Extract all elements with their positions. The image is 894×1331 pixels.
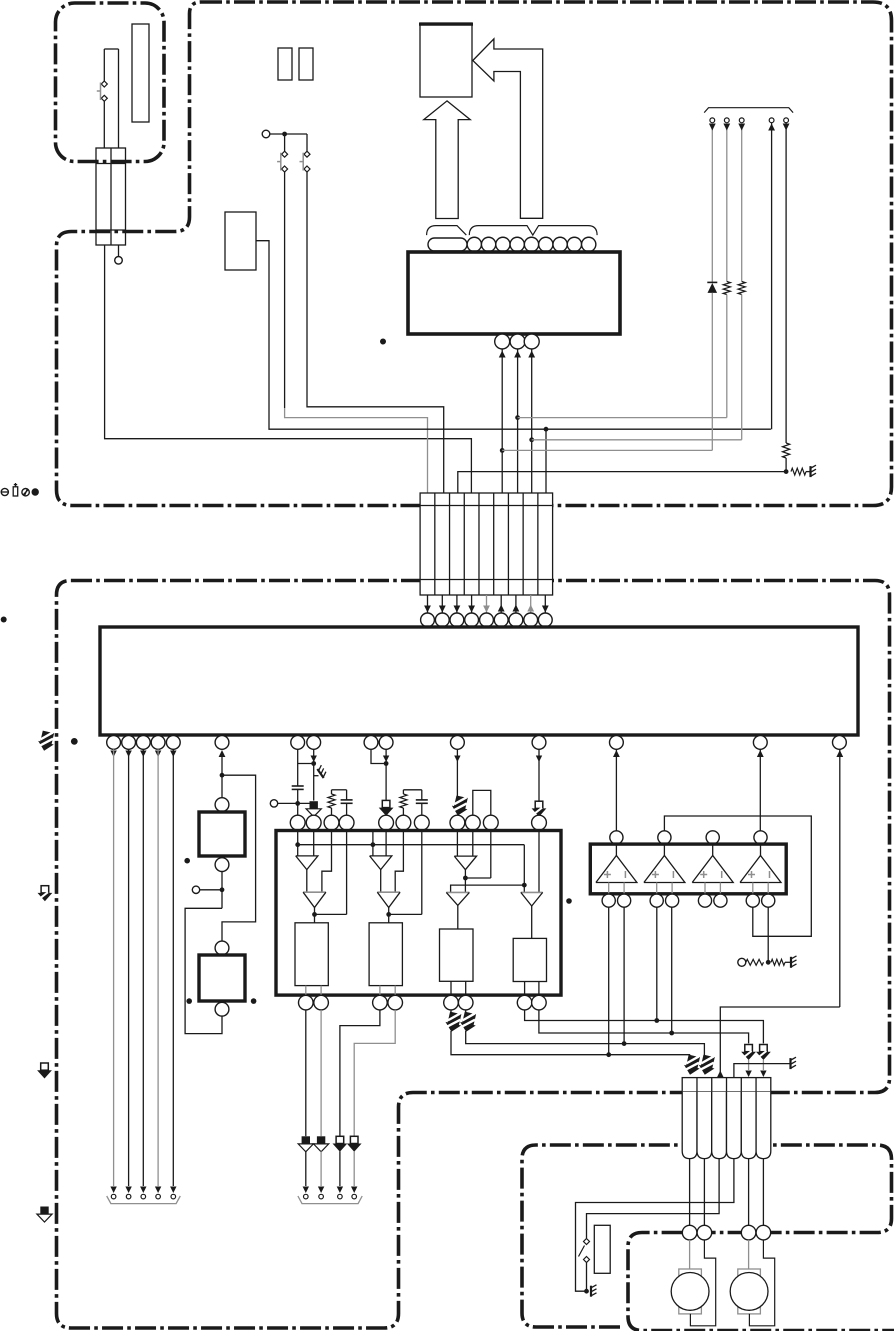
tape-head assembly tall rectangle bbox=[132, 24, 149, 122]
bullet mark left of U2 pins bbox=[71, 738, 78, 745]
brace over IC pin group, small bbox=[427, 226, 467, 236]
capacitor C1 bbox=[292, 785, 304, 787]
ground bbox=[811, 465, 817, 477]
wire: ch2 U2 pin 2 with down arrow bbox=[383, 756, 389, 763]
leaf switch S2 bbox=[284, 134, 286, 151]
switch actuator rectangle bbox=[594, 1225, 610, 1273]
bullet marks flanking K2 bbox=[186, 998, 192, 1004]
relay/solenoid K2 top pin bbox=[215, 941, 229, 955]
U3 ch3 output wire bbox=[457, 905, 459, 929]
terminal stub with open terminal circle bbox=[118, 245, 120, 257]
U3 ch2 second-stage amp triangle bbox=[377, 891, 400, 893]
wire: U3 ch1 output B to tape-out tag 2 (grey) bbox=[320, 1010, 322, 1136]
wire: U1 column8 node to right harness line 3 (grey) bbox=[532, 439, 742, 441]
wire: amp1 outputs join harness bbox=[608, 907, 610, 1054]
wire: cassette block to top connector column 4 bbox=[105, 245, 472, 493]
motor M1 connector pins bbox=[682, 1225, 697, 1240]
bullet mark right of U3 bbox=[566, 898, 572, 904]
connector J1 header bbox=[682, 1078, 771, 1092]
record switch S4 bbox=[584, 1239, 590, 1245]
ground bbox=[791, 956, 797, 968]
wire: U2 last pin to bottom header col3 with up arrows bbox=[839, 749, 841, 1007]
ground bbox=[791, 1057, 797, 1069]
left 5-wire group to bottom header J1 bbox=[110, 751, 116, 758]
motor M2 body bbox=[730, 1273, 768, 1311]
tag symbol: open square + solid arrow bbox=[333, 1136, 348, 1152]
level symbol open square + hatched arrow into header col6 bbox=[756, 1045, 771, 1061]
wire: ch4 U2 pin with down arrow bbox=[536, 756, 542, 763]
tag symbol: solid square + open arrow bbox=[298, 1136, 313, 1152]
erase-head rectangle pair, right bbox=[299, 48, 313, 80]
U3 ch3 first-stage amp triangle bbox=[454, 856, 476, 870]
module border: bottom switch sub-region and motor sub-region (dash-dot) bbox=[522, 1145, 894, 1331]
resistor R7 bbox=[746, 959, 764, 965]
U3 ch3 stage-1 output node to jumper pin bbox=[464, 870, 466, 893]
amp U4 top pin pads bbox=[610, 831, 623, 844]
wire: ch3 U2 pin with down arrow bbox=[454, 756, 460, 763]
IC U3 4-channel driver box bbox=[276, 831, 561, 996]
sensor block rectangle bbox=[225, 212, 256, 270]
wire: J1 col4 to switch common and ground bbox=[576, 1159, 734, 1292]
U3 ch3 input wires bbox=[456, 831, 458, 857]
wire: U2 pin to U4 amp1 input with up arrow bbox=[615, 749, 617, 831]
wire: ch3 output B to header col2 (H3) bbox=[466, 1031, 705, 1058]
U3 ch1 pin2 input wire bbox=[313, 831, 315, 856]
harness line 1 (grey) with down arrow bbox=[711, 123, 713, 283]
connector J1 pin sleeves (6 pills) bbox=[682, 1092, 697, 1159]
U3 ch1 inter-stage wire bbox=[306, 870, 308, 893]
brace over IC pin group, large bbox=[469, 226, 597, 236]
U3 ch1 first-stage amp triangle bbox=[296, 856, 318, 870]
legend: bullet sample bbox=[32, 488, 39, 495]
U3 ch1 feedback jog from resistor pin bbox=[322, 831, 332, 893]
right harness terminal circles bbox=[710, 118, 715, 123]
record-safety lever with leaf switch S1 bbox=[104, 48, 118, 50]
motor M2 connector pins bbox=[741, 1225, 756, 1240]
wire: amp2 outputs join harness bbox=[656, 907, 658, 1020]
power symbol hatched arrow into header col1 bbox=[682, 1054, 702, 1077]
wire: ch3 output A to header col1 (H4) bbox=[451, 1031, 690, 1058]
motor M1 mount bracket bbox=[679, 1269, 702, 1314]
wire: U1 pin to connector column 7 with up arrow bbox=[517, 349, 519, 493]
margin symbol: open square + solid arrow bbox=[37, 1063, 52, 1079]
erase-head rectangle pair, left bbox=[278, 48, 292, 80]
U3 ch4 bottom stubs bbox=[524, 982, 526, 996]
U3 ch1 output stage block bbox=[295, 923, 328, 986]
power symbol hatched arrow into header col2 bbox=[697, 1054, 717, 1077]
U3 top pin pads bbox=[290, 815, 305, 830]
U3 ch3 second-stage amp triangle bbox=[446, 891, 469, 893]
block arrow: L-shaped open arrow into display box bbox=[473, 39, 543, 218]
U3 ch1 input wires bbox=[297, 831, 299, 856]
U4 amp 2 triangle with +/- marks bbox=[663, 844, 665, 855]
U3 ch2 first-stage amp triangle bbox=[370, 856, 392, 870]
wire: U1 pin to connector column 6 with up arrow bbox=[501, 349, 503, 493]
connector CN1 ladder body bbox=[420, 493, 552, 595]
U3 internal bias bus bbox=[298, 844, 525, 846]
resistor R5 / capacitor C2 pair (ch1) bbox=[332, 789, 347, 791]
cassette connector block (two-column) bbox=[96, 148, 126, 245]
power symbol: hatched arrow (ch3 input) bbox=[450, 794, 470, 817]
U3 ch1 bottom stubs (grey) bbox=[305, 986, 307, 995]
U4 bottom pin pads bbox=[602, 894, 615, 907]
U2 bottom pin pads (15) bbox=[107, 736, 121, 750]
harness line 3 (grey) with down arrow bbox=[741, 123, 743, 282]
wire: S3 to top connector column 2 bbox=[307, 172, 444, 493]
wire: branch down to top connector column 9 bbox=[545, 429, 547, 493]
motor M2 return wire bbox=[749, 1240, 774, 1326]
IC U4 quad output amp box bbox=[590, 844, 786, 894]
U3 ch1 second-stage amp triangle bbox=[303, 891, 326, 893]
legend: test-point sample bbox=[13, 487, 18, 496]
module border: main top board region (dash-dot) bbox=[57, 2, 892, 506]
block arrow: open up-arrow from IC into display box bbox=[424, 101, 470, 219]
wire: U2 pin up-arrow node bbox=[219, 750, 226, 757]
level symbol: solid square + open arrow (ch1) bbox=[306, 801, 321, 817]
leaf switch S3 bbox=[306, 134, 308, 151]
module border: main lower board region (dash-dot, notched bottom-right) bbox=[57, 581, 890, 1329]
legend: hatched-circle sample bbox=[22, 489, 29, 496]
wire: S2 to top connector column 1 (grey) bbox=[284, 172, 286, 408]
motor M2 feed wire (grey) bbox=[748, 1240, 750, 1269]
bus branch to ch3/ch4 stages bbox=[451, 845, 525, 893]
resistor R3 on harness line 5 bbox=[783, 443, 790, 458]
U4 amp 1 triangle with +/- marks bbox=[615, 844, 617, 855]
bullet mark near K1 bbox=[184, 858, 190, 864]
legend: open terminal sample bbox=[1, 488, 8, 495]
relay/solenoid box K1 bbox=[199, 812, 245, 856]
open terminal for switch pair bbox=[262, 130, 270, 138]
level symbol open square + hatched arrow into header col5 bbox=[741, 1045, 756, 1061]
display/indicator box bbox=[420, 23, 472, 97]
U3 ch4 output wire bbox=[531, 906, 533, 938]
resistor R2 on harness line 3 bbox=[738, 282, 745, 295]
ground bbox=[591, 1285, 597, 1297]
U3 ch2 output stage block bbox=[369, 923, 402, 986]
jumper loop over ch3 pins bbox=[473, 790, 491, 815]
resistor R8 bbox=[771, 959, 785, 965]
U3 ch1 output node and cap feedback bbox=[314, 908, 316, 923]
IC U1 bottom pins (3) bbox=[495, 334, 510, 349]
U3 ch4 output stage block bbox=[513, 938, 546, 981]
resistor R6 / capacitor C3 pair (ch2) bbox=[403, 789, 421, 791]
wire: ch2 U2 pin elbow bbox=[371, 749, 386, 763]
motor M1 feed wire (grey) bbox=[689, 1240, 691, 1269]
wire: J1 col3 to record switch bbox=[587, 1159, 720, 1239]
wire: U2 pin to U4 amp4 input with up arrow bbox=[759, 749, 761, 831]
U3 ch2 bottom stubs (grey) bbox=[379, 986, 381, 995]
U3 ch3 output stage block bbox=[440, 929, 474, 981]
relay/solenoid box K2 bbox=[199, 955, 245, 1001]
margin symbol: open square + hatched arrow bbox=[38, 886, 53, 902]
wire: J1 col5 to motor connector pin bbox=[748, 1159, 750, 1226]
margin symbol: solid square + open arrow bbox=[37, 1207, 52, 1223]
wire: ch1 U2 pin elbow bbox=[297, 749, 299, 786]
U3 bottom pin pads bbox=[299, 995, 314, 1010]
resistor R4 to ground bbox=[791, 468, 806, 475]
level symbol: open square + hatched arrow (ch4) bbox=[532, 801, 547, 817]
harness line 5 with down arrow bbox=[785, 123, 787, 443]
U4 amp 3 triangle with +/- marks bbox=[712, 844, 714, 855]
module border: top-left cassette-mech block (dash-dot) bbox=[56, 3, 165, 162]
power symbol hatched arrow on ch3 output A bbox=[450, 1010, 452, 1017]
U3 ch3 bottom stubs bbox=[450, 981, 452, 995]
motor M2 mount bracket bbox=[738, 1269, 761, 1314]
open terminal to ch1 node bbox=[270, 800, 277, 807]
wire: ch4 output A to header col6 (H1) bbox=[525, 1010, 764, 1044]
wire: amp4 right output to volume network bbox=[767, 907, 769, 962]
U3 ch4 input wire bbox=[538, 831, 540, 893]
wire: ch1 U2 pin 2 with down arrow bbox=[311, 756, 317, 763]
wire: J1 col1 to motor connector pin bbox=[689, 1159, 691, 1226]
bracket under tape-out tags bbox=[298, 1196, 362, 1204]
CN1 bottom stubs with arrows into main IC pads bbox=[427, 595, 429, 613]
bullet mark near U1 bbox=[380, 339, 386, 345]
feedback loop: U4 amp2 input to amp4 output bbox=[664, 816, 811, 936]
harness line 4 with up arrow bbox=[771, 123, 773, 430]
main IC top pad circles (9) bbox=[421, 613, 435, 627]
ground stub on ch1 bbox=[314, 775, 319, 777]
U3 ch2 input wires bbox=[372, 831, 374, 856]
wire: J1 col2 to motor connector pin bbox=[703, 1159, 705, 1226]
wire: U3 ch2 output B to tape-out tag 4 (grey) bbox=[354, 1010, 395, 1136]
diode D1 on harness line 1 bbox=[707, 281, 717, 283]
U3 ch2 output node and cap feedback bbox=[388, 908, 390, 923]
level symbol: open square + solid arrow (ch2) bbox=[379, 800, 394, 816]
U3 ch2 feedback jog from resistor pin bbox=[395, 831, 403, 893]
wire: U1 column6 node to right harness line 1 (grey) bbox=[502, 449, 712, 451]
elongated pad pin on IC top bbox=[428, 238, 467, 251]
U3 ch2 inter-stage wire bbox=[380, 870, 382, 893]
wire: J1 col6 to motor connector pin bbox=[762, 1159, 764, 1226]
open terminal of volume network bbox=[738, 958, 746, 966]
IC U2 main system/servo IC box bbox=[100, 627, 858, 735]
wire: ch4 output B to header col5 (H2) bbox=[539, 1010, 749, 1044]
wire: bypass around K1 to K2 top bbox=[222, 775, 256, 941]
brace over right harness terminals bbox=[704, 108, 793, 113]
bracket under left 5-wire group bbox=[107, 1196, 181, 1204]
U3 ch4 amp triangle bbox=[521, 891, 543, 893]
power symbol hatched arrow on ch3 output B bbox=[465, 1010, 467, 1017]
margin symbol: hatched arrow (power in) bbox=[36, 730, 56, 753]
wire: header col4 to ground bbox=[734, 1064, 790, 1078]
wire: U3 ch1 output A to tape-out tag 1 bbox=[305, 1010, 307, 1136]
IC U1 main microcontroller box bbox=[408, 252, 620, 334]
harness line 2 (grey) with down arrow bbox=[726, 123, 728, 282]
relay/solenoid K1 top pin bbox=[215, 798, 229, 812]
U3 ch2 pin2 input wire bbox=[385, 831, 387, 856]
wire: connector column 3 to right harness line 5 bbox=[458, 472, 786, 493]
wire: sensor block to connector column 9 and right-side harness line 4 bbox=[256, 241, 771, 430]
resistor R1 on harness line 2 bbox=[723, 282, 730, 295]
wire: terminal to both leaf switches bbox=[270, 133, 307, 135]
bullet mark left margin bbox=[1, 617, 7, 623]
wire: U3 ch2 output A to tape-out tag 3 bbox=[340, 1010, 380, 1136]
IC U1 top pin row (9 round pads) bbox=[467, 237, 481, 251]
K2 bottom pin bbox=[215, 1002, 229, 1016]
motor M1 return wire bbox=[690, 1240, 715, 1326]
K1 bottom pin bbox=[215, 858, 229, 872]
open terminal into K1 bottom node bbox=[192, 886, 199, 893]
U4 amp 4 triangle with +/- marks bbox=[760, 844, 762, 855]
wire: U1 pin to connector column 8 with up arrow bbox=[531, 349, 533, 493]
wire: U1 column7 node to right harness line 2 (grey) bbox=[518, 417, 727, 419]
motor M1 body bbox=[671, 1273, 709, 1311]
wire: K1 bottom to K2 bottom via left detour bbox=[221, 872, 223, 909]
